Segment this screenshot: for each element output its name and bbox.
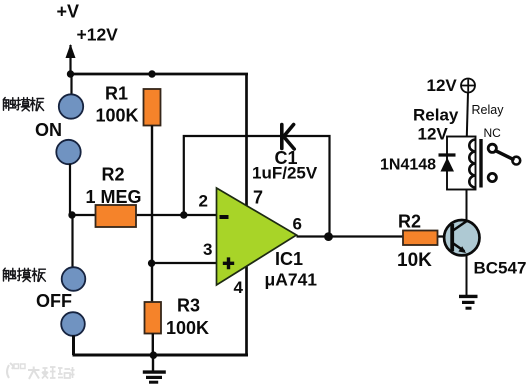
svg-text:4: 4 (234, 278, 244, 297)
svg-text:3: 3 (203, 240, 212, 259)
svg-text:100K: 100K (166, 318, 209, 338)
svg-text:μA741: μA741 (265, 270, 318, 290)
svg-text:1 MEG: 1 MEG (86, 187, 142, 207)
resistor R2 10K (403, 231, 438, 246)
relay contact common ring (512, 157, 520, 165)
wire op-amp output (pin6) (297, 235, 453, 237)
wire touch-plate column upper (70, 74, 72, 96)
transistor Q1 BC547 (444, 220, 479, 255)
svg-text:12V: 12V (418, 125, 449, 144)
capacitor C1 (K-shaped) (282, 125, 294, 150)
svg-text:1N4148: 1N4148 (380, 157, 436, 174)
wire supply to relay (467, 93, 468, 137)
svg-text:+12V: +12V (77, 25, 119, 45)
svg-text:R2: R2 (102, 165, 125, 185)
relay core bar (479, 139, 482, 188)
node junction feedback/minus (180, 211, 187, 218)
wire emitter down (466, 255, 468, 296)
ground symbol transistor (459, 296, 478, 308)
wire touch column lower (71, 215, 73, 268)
supply symbol 12V circled plus (461, 79, 475, 93)
node junction plus-wire / R1R3 column (148, 260, 155, 267)
watermark bottom-left (7, 363, 75, 379)
wire non-inverting input (pin3) (152, 262, 218, 264)
relay coil (469, 140, 475, 188)
wire R1 bottom column to R3 (151, 126, 153, 303)
label 触摸板 (lower, drawn strokes) (3, 268, 45, 281)
wire top rail +12V horizontal (71, 73, 249, 76)
svg-text:R2: R2 (398, 212, 421, 232)
touch plate ON lower disc (56, 140, 80, 164)
op-amp U1 triangle (217, 188, 297, 285)
power arrow +V (66, 44, 76, 74)
resistor R2 1MEG (96, 205, 137, 227)
wire feedback loop left+top+right (184, 136, 330, 237)
svg-text:BC547: BC547 (474, 259, 527, 278)
svg-text:+V: +V (57, 2, 80, 22)
wire pin4 drop to ground rail (245, 266, 248, 355)
wire touch column bottom into ground rail (73, 336, 249, 356)
node junction minus-wire left (68, 211, 75, 218)
node junction top-left (67, 70, 74, 77)
resistor R1 (144, 89, 161, 126)
plus sign inside op-amp (223, 257, 234, 269)
wire R3 bottom (152, 334, 154, 356)
node junction ground rail (150, 351, 158, 359)
wire touch column mid (69, 164, 71, 216)
relay box (447, 137, 476, 190)
svg-text:Relay: Relay (472, 103, 505, 117)
svg-text:10K: 10K (397, 250, 432, 271)
svg-text:Relay: Relay (413, 106, 459, 125)
ground symbol main (143, 355, 166, 382)
svg-text:ON: ON (35, 120, 62, 140)
wire inverting input (pin2) (72, 214, 217, 216)
touch plate OFF lower disc (61, 312, 85, 336)
relay contact NO ring (488, 173, 496, 181)
touch plate ON upper disc (59, 94, 83, 118)
label 触摸板 (upper, drawn strokes) (3, 98, 43, 111)
node junction top R1 (148, 70, 155, 77)
svg-text:R1: R1 (105, 84, 128, 104)
svg-text:R3: R3 (177, 296, 200, 316)
relay contact NC ring (488, 144, 496, 152)
svg-text:12V: 12V (427, 76, 458, 95)
svg-text:1uF/25V: 1uF/25V (252, 164, 318, 183)
node junction output/feedback (324, 232, 333, 241)
resistor R3 (145, 302, 162, 334)
svg-text:100K: 100K (96, 106, 139, 126)
svg-text:NC: NC (484, 126, 502, 140)
wire pin7 drop from rail (245, 74, 248, 206)
svg-text:6: 6 (293, 215, 302, 234)
svg-text:2: 2 (199, 192, 208, 211)
wire relay to collector (466, 190, 468, 221)
svg-text:OFF: OFF (36, 291, 72, 311)
svg-text:IC1: IC1 (275, 249, 303, 269)
touch plate OFF upper disc (62, 267, 86, 291)
svg-text:7: 7 (253, 188, 263, 208)
relay switch arm (496, 151, 513, 160)
minus sign inside op-amp (220, 215, 229, 219)
diode 1N4148 (439, 155, 456, 172)
